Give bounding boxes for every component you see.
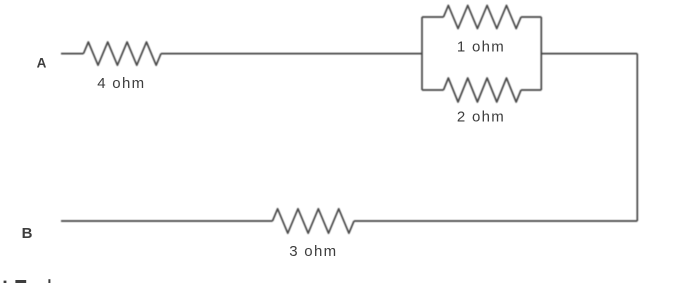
wire top branch left lead <box>422 16 444 18</box>
resistor R1 4 ohm <box>84 42 162 65</box>
wire A lead <box>61 53 84 55</box>
cut-off text fragments at bottom edge <box>4 279 51 283</box>
wire bottom branch right lead <box>521 89 541 91</box>
svg-text:2 ohm: 2 ohm <box>457 109 505 126</box>
svg-text:4 ohm: 4 ohm <box>97 75 145 92</box>
svg-text:3 ohm: 3 ohm <box>289 243 337 260</box>
svg-text:1 ohm: 1 ohm <box>457 38 505 55</box>
svg-text:A: A <box>37 55 47 70</box>
resistor R4 3 ohm <box>273 209 355 233</box>
wire bottom right segment <box>354 220 637 222</box>
resistor R2 1 ohm <box>444 5 522 28</box>
wire parallel left vertical <box>421 17 423 90</box>
wire parallel block to right edge <box>541 53 637 55</box>
wire top to parallel block <box>161 53 422 55</box>
resistor R3 2 ohm <box>444 78 522 102</box>
svg-text:B: B <box>22 225 33 242</box>
wire right edge vertical <box>636 54 638 221</box>
wire parallel right vertical <box>540 17 542 90</box>
wire bottom left segment <box>61 220 273 222</box>
wire bottom branch left lead <box>422 89 444 91</box>
wire top branch right lead <box>521 16 541 18</box>
